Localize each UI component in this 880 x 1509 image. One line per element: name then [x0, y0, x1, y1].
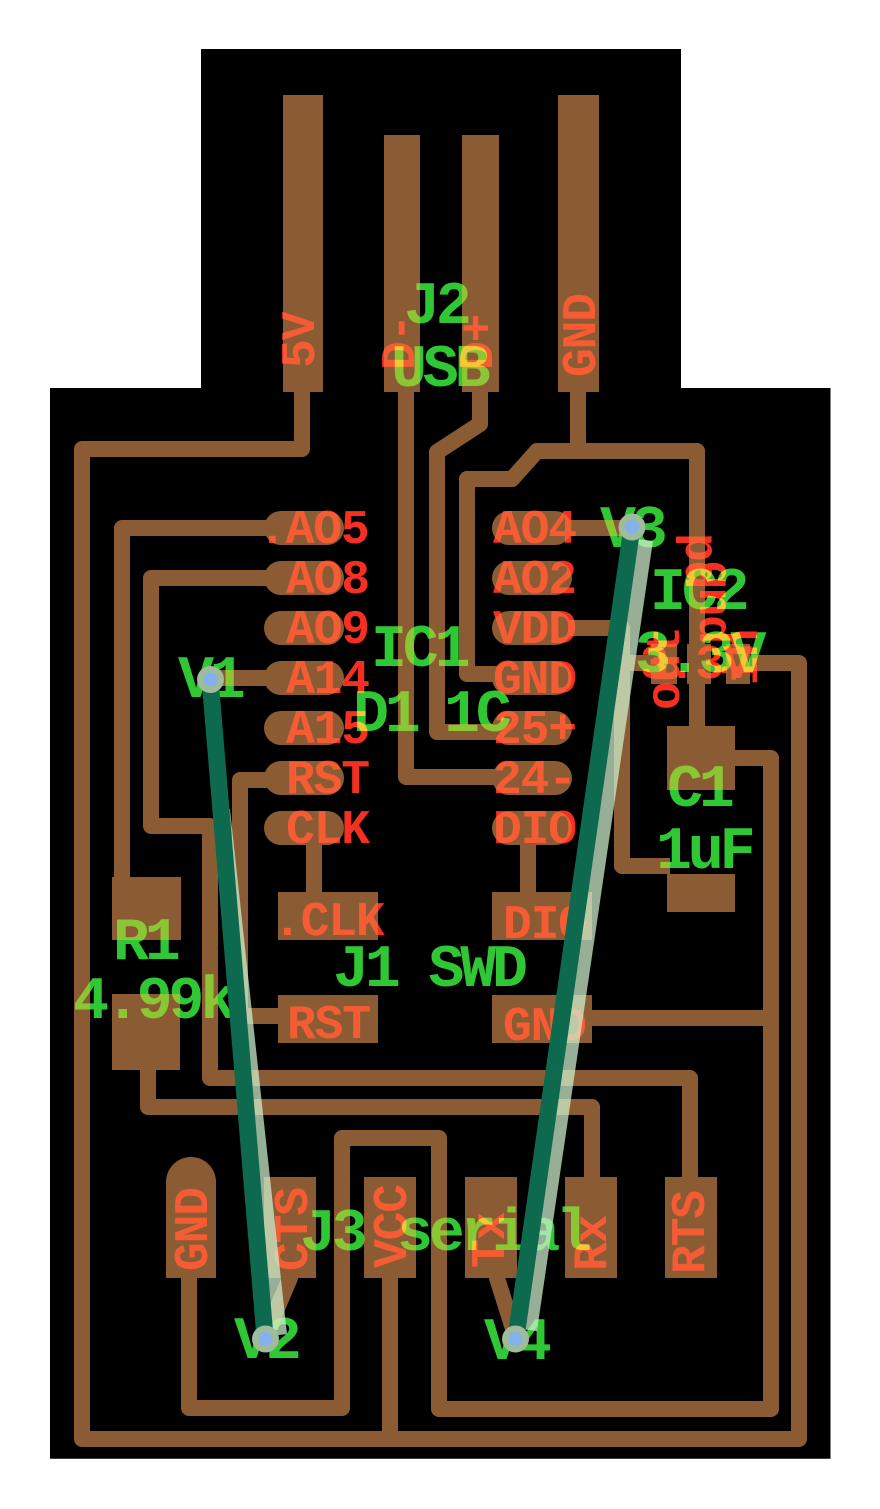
copper traces [82, 390, 799, 1439]
wire via V1 to A14 pad [210, 670, 276, 686]
svg-text:CLK: CLK [286, 804, 370, 858]
pad J2 D+ [462, 135, 499, 392]
svg-text:DIO: DIO [493, 804, 576, 858]
pad J3 Rx [565, 1177, 617, 1278]
pad IC1 A02 [492, 561, 572, 595]
pad J1 .CLK [278, 892, 378, 940]
labels (lighten-blended like EAGLE layer colors) [73, 274, 772, 1378]
via V4 [502, 1326, 529, 1353]
airwire V3-V4 [516, 527, 632, 1337]
svg-text:3.3V: 3.3V [635, 623, 766, 691]
pad J1 DIO [492, 892, 592, 940]
pad IC2 out [651, 644, 677, 684]
svg-text:RST: RST [286, 754, 369, 808]
svg-text:AO2: AO2 [493, 554, 576, 608]
svg-text:24-: 24- [493, 754, 576, 808]
svg-text:GND: GND [168, 1188, 222, 1271]
via V2 [252, 1326, 279, 1353]
svg-text:R1: R1 [113, 910, 179, 978]
pad J2 D- [384, 135, 420, 392]
pad J1 GND [492, 995, 592, 1043]
pad C1 bottom [667, 874, 735, 912]
wire R1 bottom pad down, across, to Rx pad [148, 1062, 592, 1180]
wire A04 pad to via V3 [560, 520, 632, 536]
pad IC1 RST [264, 761, 344, 795]
svg-text:1C: 1C [444, 682, 511, 750]
svg-text:IC1: IC1 [371, 617, 469, 685]
pad IC1 A05 [264, 511, 344, 545]
pad IC1 24- [492, 761, 572, 795]
pad J3 Tx [465, 1177, 517, 1278]
svg-text:AO9: AO9 [286, 604, 369, 658]
pad J2 GND [558, 95, 599, 392]
pad J3 RTS [665, 1177, 717, 1278]
svg-text:J2: J2 [404, 274, 469, 342]
wire RST pin left, down to J1 RST pad [240, 780, 282, 1016]
svg-text:J1 SWD: J1 SWD [333, 937, 526, 1005]
svg-text:C1: C1 [667, 757, 733, 825]
pad IC1 DIO [492, 811, 572, 845]
wire USB GND diagonal branch to IC1 GND pin [467, 451, 578, 674]
svg-text:AO4: AO4 [493, 504, 576, 558]
svg-text:D1: D1 [353, 682, 419, 750]
pad IC2 middle [687, 644, 711, 684]
wire C1 top pad right to GND vertical, down, bridge over VCC, to J3 GND pad [189, 758, 771, 1409]
svg-text:GND: GND [556, 294, 610, 377]
pad C1 top [667, 726, 735, 790]
wire CLK pin stub to J1 .CLK pad [306, 842, 322, 896]
pads [112, 95, 750, 1278]
airwire highlight band V1-V2 [222, 810, 279, 1335]
pad J2 5V [283, 95, 323, 392]
pad IC1 A14 [264, 661, 344, 695]
pad IC1 CLK [264, 811, 344, 845]
pad IC1 A08 [264, 561, 344, 595]
pad J3 GND [166, 1157, 216, 1278]
pad IC1 25+ [492, 711, 572, 745]
svg-text:IC2: IC2 [650, 560, 747, 628]
pad J1 RST [278, 995, 378, 1043]
pad IC2 in [726, 644, 750, 684]
via V3 [619, 514, 646, 541]
svg-text:5V: 5V [275, 311, 329, 368]
wire Tx pad diagonal to via V4 [497, 1278, 514, 1332]
svg-text:USB: USB [391, 337, 490, 405]
airwire V1-V2 [210, 679, 265, 1337]
wire DIO pin stub to J1 DIO pad [520, 842, 536, 896]
svg-text:VDD: VDD [493, 604, 576, 658]
pad R1 top [112, 877, 181, 940]
airwire highlight band V3-V4 [529, 540, 645, 1330]
wire D+ jog to 25+ pin [437, 390, 500, 732]
wire VDD jog stub into IC2 left pad [622, 655, 655, 671]
wire CTS pad diagonal to via V2 [267, 1278, 290, 1332]
wire USB GND right branch down to C1 top / IC2 middle [578, 390, 697, 734]
svg-text:J3: J3 [300, 1201, 365, 1269]
wire A05 to R1 top pad [122, 528, 276, 885]
svg-text:.AO5: .AO5 [258, 504, 368, 558]
pad J3 CTS [264, 1177, 316, 1278]
pad R1 bottom [112, 994, 180, 1070]
pad IC1 A04 [492, 511, 572, 545]
pad IC1 VDD [492, 611, 572, 645]
svg-text:1uF: 1uF [656, 819, 753, 887]
svg-text:4.99k: 4.99k [73, 969, 235, 1037]
wire J1 GND pad right to GND vertical [588, 1010, 771, 1026]
svg-text:serial: serial [397, 1201, 590, 1269]
wire 5V loop: 5V pad down, left edge, bottom edge, up right to IC2 in-pad [82, 390, 799, 1439]
via V1 [197, 666, 224, 693]
wire VCC stub to bottom loop [382, 1276, 398, 1439]
pad IC1 A09 [264, 611, 344, 645]
wire A08 left, down, across bottom to RTS pad [151, 578, 690, 1180]
svg-text:AO8: AO8 [286, 554, 369, 608]
pad J3 VCC [364, 1177, 416, 1278]
svg-text:RST: RST [287, 999, 370, 1053]
wire D- to 24- pin [406, 390, 500, 777]
pad IC1 GND [492, 661, 572, 695]
wire VDD right jog to IC2 out pad and down to C1 bottom pad [566, 628, 670, 866]
svg-text:RTS: RTS [665, 1191, 719, 1274]
pad IC1 A15 [264, 711, 344, 745]
